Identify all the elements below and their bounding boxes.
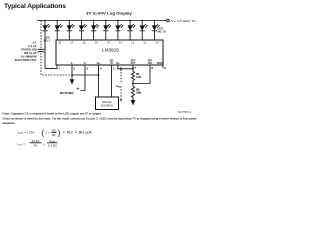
terminal V+	[167, 19, 170, 22]
svg-text:12.5V: 12.5V	[32, 139, 40, 143]
op IC U1 LM3915 box	[56, 40, 163, 65]
formula ILED	[18, 139, 58, 148]
LED D6	[103, 21, 111, 41]
wire pin3 V+	[81, 65, 86, 91]
wire pin6 RHI	[118, 65, 133, 69]
pin 9 stub MODE	[162, 65, 164, 68]
wire pin4 RLO	[98, 65, 100, 97]
wire pin1 return	[45, 65, 57, 69]
resistor R2	[131, 87, 134, 101]
svg-text:1.2k: 1.2k	[136, 76, 141, 79]
LED D7	[115, 21, 123, 41]
VREF dashed annotation	[120, 69, 122, 101]
svg-text:17: 17	[70, 41, 73, 45]
svg-text:IN: IN	[110, 63, 113, 65]
svg-text:SOURCE: SOURCE	[101, 104, 113, 108]
svg-text:Typical Applications: Typical Applications	[4, 3, 66, 10]
wire REF ADJ	[133, 65, 150, 84]
svg-text:(3V TO 25V): (3V TO 25V)	[60, 92, 74, 95]
svg-text:V+ (V LED) 3V: V+ (V LED) 3V	[171, 19, 196, 23]
LED D1	[42, 21, 50, 69]
svg-text:LM3915: LM3915	[102, 47, 119, 52]
svg-text:R2: R2	[52, 128, 56, 132]
LED D10	[152, 21, 160, 41]
svg-text:V+: V+	[77, 88, 81, 91]
svg-text:10: 10	[155, 41, 158, 45]
ground arrow V-	[70, 79, 75, 84]
LED D3	[67, 21, 75, 41]
svg-text:Note: Capacitor C1 is required: Note: Capacitor C1 is required if leads …	[3, 112, 102, 116]
wire V+ rail	[37, 20, 166, 22]
wire pin7 REF OUT	[132, 65, 134, 72]
svg-text:ELECTROLYTIC: ELECTROLYTIC	[15, 58, 38, 62]
LED D2	[55, 21, 63, 41]
svg-text:R1: R1	[52, 133, 56, 137]
svg-text:NO. 10: NO. 10	[158, 30, 167, 34]
svg-text:dissipation.: dissipation.	[3, 121, 16, 125]
LED D8	[128, 21, 136, 41]
capacitor C1 dashed lead bottom	[41, 53, 71, 75]
svg-text:12: 12	[131, 41, 134, 45]
svg-text:NO. 1: NO. 1	[44, 39, 51, 43]
svg-text:18: 18	[58, 41, 61, 45]
LED D5	[91, 21, 99, 41]
LED D9	[140, 21, 148, 41]
svg-text:3.9k: 3.9k	[136, 92, 141, 95]
svg-text:16: 16	[83, 41, 86, 45]
svg-text:MODE: MODE	[157, 63, 164, 65]
capacitor C1 dashed lead top	[40, 21, 42, 49]
LED D4	[79, 21, 87, 41]
svg-text:15: 15	[95, 41, 98, 45]
ground arrow R2	[131, 100, 136, 106]
svg-text:): )	[58, 127, 61, 137]
node RHI/REFOUT	[132, 68, 134, 70]
svg-text:2.2 kΩ: 2.2 kΩ	[48, 144, 58, 148]
signal source box	[96, 97, 119, 110]
node RLO junction	[98, 74, 100, 76]
C1 value label	[15, 40, 38, 62]
svg-text:Circuit as shown is wired for: Circuit as shown is wired for dot mode. …	[3, 117, 197, 121]
wire pin2 V-	[71, 65, 73, 79]
svg-text:ADJ: ADJ	[148, 62, 153, 65]
svg-text:14: 14	[107, 41, 110, 45]
rail junction dots	[44, 20, 46, 22]
svg-text:+ R2 × 80 µA: + R2 × 80 µA	[63, 130, 93, 134]
svg-text:13: 13	[119, 41, 122, 45]
node REF ADJ junction	[132, 83, 134, 85]
svg-text:1 +: 1 +	[46, 130, 51, 134]
svg-text:TL/H/7970–1: TL/H/7970–1	[178, 111, 192, 114]
svg-text:3V to 60V Log Display: 3V to 60V Log Display	[86, 11, 132, 15]
svg-text:+: +	[43, 142, 45, 146]
formula VREF	[17, 127, 93, 137]
capacitor C1	[38, 46, 47, 52]
resistor R1	[131, 72, 134, 87]
svg-text:R1: R1	[34, 144, 38, 148]
wire V- bus	[72, 74, 99, 76]
svg-text:LED: LED	[158, 26, 163, 30]
svg-text:OUT: OUT	[131, 63, 136, 65]
node V- junction	[71, 74, 73, 76]
svg-text:(: (	[41, 127, 44, 137]
wire pin5 SIG	[111, 65, 113, 97]
